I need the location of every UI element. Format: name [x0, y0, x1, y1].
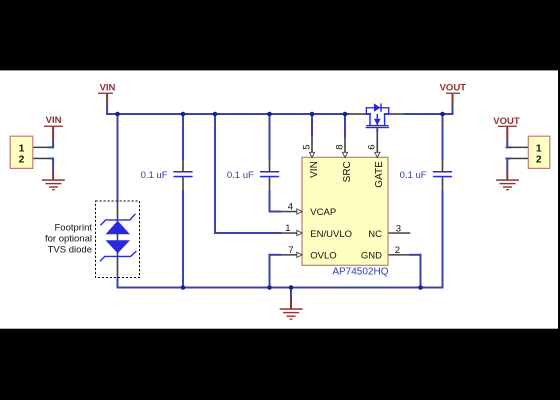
svg-text:8: 8 [334, 145, 345, 150]
svg-text:Footprint: Footprint [55, 222, 93, 233]
svg-text:1: 1 [536, 143, 542, 154]
svg-text:AP74502HQ: AP74502HQ [332, 267, 388, 278]
svg-text:OVLO: OVLO [310, 251, 336, 262]
svg-text:1: 1 [285, 223, 290, 234]
svg-text:EN/UVLO: EN/UVLO [310, 229, 352, 240]
svg-text:for optional: for optional [45, 233, 92, 244]
svg-text:GATE: GATE [374, 161, 385, 188]
svg-text:TVS diode: TVS diode [48, 245, 92, 256]
svg-text:2: 2 [395, 245, 400, 256]
svg-text:VCAP: VCAP [310, 207, 336, 218]
svg-text:2: 2 [19, 155, 25, 166]
svg-text:2: 2 [536, 155, 542, 166]
svg-text:1: 1 [19, 143, 25, 154]
svg-text:VOUT: VOUT [440, 83, 467, 94]
svg-text:5: 5 [301, 145, 312, 150]
svg-text:0.1 uF: 0.1 uF [141, 170, 168, 181]
svg-text:NC: NC [368, 229, 382, 240]
svg-text:7: 7 [288, 245, 293, 256]
svg-text:4: 4 [288, 201, 293, 212]
svg-text:VIN: VIN [100, 83, 116, 94]
svg-text:VIN: VIN [309, 161, 320, 178]
svg-text:0.1 uF: 0.1 uF [227, 170, 254, 181]
svg-text:GND: GND [361, 251, 382, 262]
svg-text:SRC: SRC [342, 161, 353, 182]
svg-text:VIN: VIN [46, 115, 62, 126]
svg-text:VOUT: VOUT [493, 116, 520, 127]
svg-text:0.1 uF: 0.1 uF [400, 170, 427, 181]
svg-text:6: 6 [367, 145, 378, 150]
svg-text:3: 3 [396, 224, 401, 235]
